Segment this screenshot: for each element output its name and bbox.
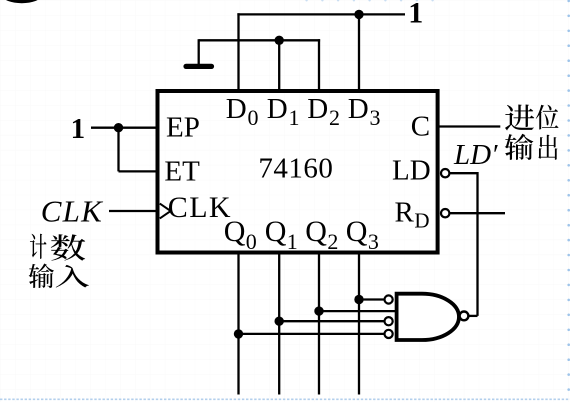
wire: EP input bbox=[91, 127, 158, 129]
wire: Q0 tap to NAND input 4 bbox=[239, 333, 385, 335]
wire: preset rail from D0 corner to label 1 bbox=[237, 13, 405, 15]
wire: ground rail to D1/D2 bbox=[199, 39, 320, 41]
editor dotted border right bbox=[567, 0, 570, 391]
text wei4 of carry-output bbox=[536, 105, 559, 130]
wire: Q3 tap to NAND input 1 bbox=[359, 298, 384, 300]
svg-text:C: C bbox=[411, 110, 430, 142]
wire: Q0 vertical bbox=[237, 253, 239, 395]
text shu1 of carry-output row2 bbox=[505, 134, 534, 160]
wire: Q3 vertical bbox=[358, 253, 360, 395]
ground symbol bar bbox=[186, 64, 212, 69]
wire: D3 vertical bbox=[358, 13, 360, 93]
text ji4 of count-input bbox=[30, 234, 47, 259]
wire: LD to NAND output vertical bbox=[476, 172, 478, 316]
NAND gate U2 body bbox=[397, 294, 459, 340]
NAND output bubble bbox=[460, 312, 469, 321]
wire: C carry output bbox=[440, 125, 501, 127]
text chu1 of carry-output row2 bbox=[538, 135, 557, 160]
NAND input bubble 3 from Q0 bbox=[385, 330, 393, 338]
wire: NAND output horizontal bbox=[469, 315, 478, 317]
partially visible bullet badge top-left bbox=[3, 0, 42, 3]
text shu4 of count-input bbox=[51, 234, 85, 260]
svg-text:ET: ET bbox=[164, 155, 200, 187]
junction: D1 on ground rail bbox=[275, 36, 284, 45]
NAND input bubble 1 from Q3 bbox=[385, 295, 393, 303]
wire: D0 vertical bbox=[237, 13, 239, 93]
junction: D3 on preset rail bbox=[354, 10, 363, 19]
svg-text:LD′: LD′ bbox=[453, 139, 498, 171]
wire: ET input bbox=[119, 170, 158, 172]
wire: CLK input bbox=[109, 210, 157, 212]
editor dashed border bottom bbox=[0, 398, 570, 400]
svg-text:LD: LD bbox=[392, 154, 431, 186]
wire: Q1 vertical bbox=[278, 253, 280, 395]
junction: Q3 tap bbox=[354, 295, 363, 304]
clock edge triangle on CLK pin bbox=[160, 204, 171, 219]
svg-text:1: 1 bbox=[71, 113, 86, 145]
text jin4 of carry-output bbox=[505, 105, 534, 131]
wire: EP-ET jumper vertical bbox=[117, 128, 119, 172]
wire: D1 vertical bbox=[278, 39, 280, 93]
wire: Q1 tap to NAND input 3 bbox=[279, 320, 384, 322]
wire: LD output bbox=[450, 172, 478, 174]
active-low bubble on LD pin bbox=[441, 169, 449, 177]
text ru4 of count-input row2 bbox=[56, 265, 89, 288]
junction: EP-ET tie bbox=[114, 123, 123, 132]
wire: RD output bbox=[450, 212, 505, 214]
wire: ground stub bbox=[198, 39, 200, 64]
svg-text:1: 1 bbox=[408, 0, 423, 29]
wire: D2 vertical bbox=[318, 39, 320, 93]
svg-text:EP: EP bbox=[166, 112, 200, 144]
wire: Q2 tap to NAND input 2 bbox=[319, 310, 397, 312]
junction: Q1 tap bbox=[275, 317, 284, 326]
svg-text:74160: 74160 bbox=[258, 152, 333, 184]
svg-text:CLK: CLK bbox=[41, 194, 104, 229]
junction: Q2 tap bbox=[314, 306, 323, 315]
editor dotted border top bbox=[305, 0, 433, 2]
text shu1 of count-input row2 bbox=[29, 264, 54, 289]
IC U1 74160 body bbox=[158, 91, 438, 253]
NAND input bubble 2 from Q1 bbox=[385, 317, 393, 325]
svg-text:CLK: CLK bbox=[168, 191, 232, 224]
wire: Q2 vertical bbox=[318, 253, 320, 395]
active-low bubble on RD pin bbox=[441, 209, 449, 217]
junction: Q0 tap bbox=[234, 329, 243, 338]
